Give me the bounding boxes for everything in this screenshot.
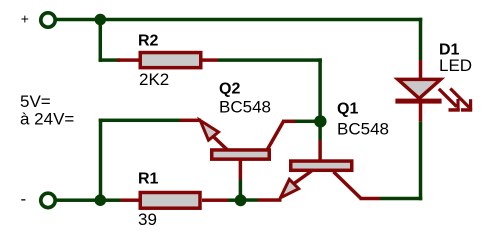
pin Q1 collector horizontal	[360, 197, 381, 201]
resistor R2	[140, 53, 201, 68]
wire bottom rail left	[55, 198, 121, 202]
svg-text:à 24V=: à 24V=	[20, 110, 74, 129]
pin Q1 emitter horizontal	[258, 198, 282, 202]
wire Q2 base to bottom junction	[239, 180, 243, 201]
pin Q2 base lead	[239, 160, 243, 180]
svg-text:LED: LED	[439, 56, 472, 75]
svg-text:R1: R1	[138, 171, 159, 188]
pin Q1 collector diagonal	[334, 172, 362, 199]
pin R2 left lead	[117, 58, 139, 62]
pin Q2 emitter arrow	[200, 120, 218, 140]
pin Q2 collector horizontal	[282, 120, 295, 124]
wire R2 row left	[99, 58, 120, 62]
wire Q2 collector to mid junction	[293, 120, 320, 124]
svg-text:Q2: Q2	[219, 81, 240, 98]
wire R1 to bottom junction	[228, 198, 241, 202]
svg-text:39: 39	[138, 210, 157, 229]
LED arrow 1 shaft	[439, 89, 457, 107]
LED arrow 2 shaft	[450, 89, 469, 108]
svg-text:+: +	[21, 11, 29, 27]
diode D1 triangle	[398, 79, 441, 98]
wire left mid vertical	[99, 119, 103, 201]
node mid junction	[314, 115, 326, 127]
LED arrow 2 head	[461, 99, 472, 112]
pin Q1 emitter diagonal	[294, 171, 312, 184]
terminal + (positive input)	[41, 13, 55, 27]
wire from top junction down to R2	[99, 20, 103, 62]
wire left mid horizontal	[99, 119, 180, 123]
svg-text:5V=: 5V=	[20, 92, 51, 111]
pin R1 right lead	[202, 198, 228, 202]
wire mid junction to Q1 base	[318, 121, 322, 141]
node bottom left junction	[95, 194, 107, 206]
pin R2 right lead	[203, 58, 219, 62]
wire top rail	[55, 18, 422, 22]
terminal - (negative input)	[41, 193, 55, 207]
wire bottom junction to Q1 emitter	[241, 198, 259, 202]
resistor R1	[140, 193, 200, 209]
pin Q2 emitter diagonal	[214, 137, 228, 150]
pin R1 left lead	[121, 198, 139, 202]
pin Q2 collector diagonal	[268, 121, 284, 149]
svg-text:BC548: BC548	[219, 98, 271, 117]
pin wire to Q2 emitter	[180, 119, 201, 123]
node bottom junction	[235, 194, 247, 206]
wire R2 to right vertical	[218, 58, 322, 62]
svg-text:Q1: Q1	[337, 101, 358, 118]
wire right vertical lower	[419, 121, 423, 200]
svg-text:R2: R2	[138, 33, 159, 50]
svg-text:-: -	[21, 190, 27, 209]
pin D1 cathode lead	[419, 104, 423, 122]
wire right vertical down to mid junction	[318, 58, 322, 122]
LED arrow 1 head	[449, 99, 460, 112]
transistor Q2 body bar	[212, 150, 270, 159]
svg-text:2K2: 2K2	[139, 70, 169, 89]
transistor Q1 body bar	[291, 161, 352, 170]
svg-text:BC548: BC548	[337, 120, 389, 139]
wire bottom right horizontal	[380, 197, 422, 201]
node top junction	[95, 14, 107, 26]
pin Q1 emitter arrow	[280, 179, 298, 198]
wire top right vertical	[419, 18, 423, 60]
diode D1 cathode bar	[395, 99, 441, 104]
pin Q1 base lead	[318, 140, 322, 161]
pin D1 anode lead	[419, 60, 423, 81]
